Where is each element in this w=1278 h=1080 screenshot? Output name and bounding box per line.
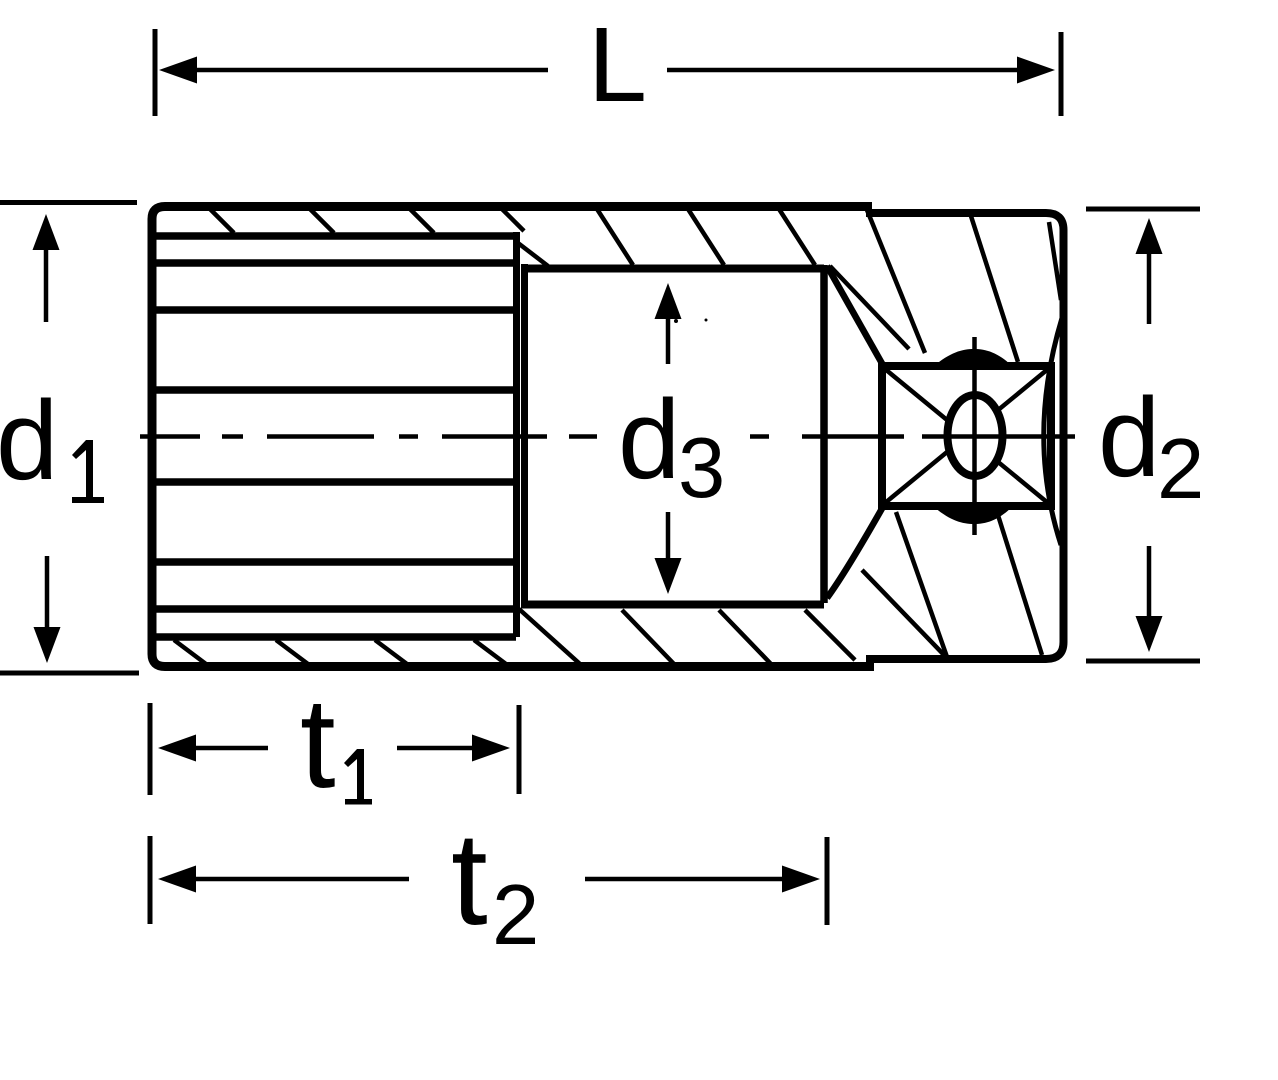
svg-text:t: t — [451, 805, 488, 952]
svg-text:t: t — [300, 672, 336, 815]
svg-text:2: 2 — [1157, 422, 1204, 517]
svg-text:L: L — [588, 6, 647, 124]
svg-text:d: d — [1098, 375, 1160, 500]
svg-text:3: 3 — [678, 421, 725, 516]
svg-text:d: d — [0, 378, 58, 503]
svg-text:d: d — [618, 377, 680, 502]
svg-text:2: 2 — [492, 868, 539, 963]
